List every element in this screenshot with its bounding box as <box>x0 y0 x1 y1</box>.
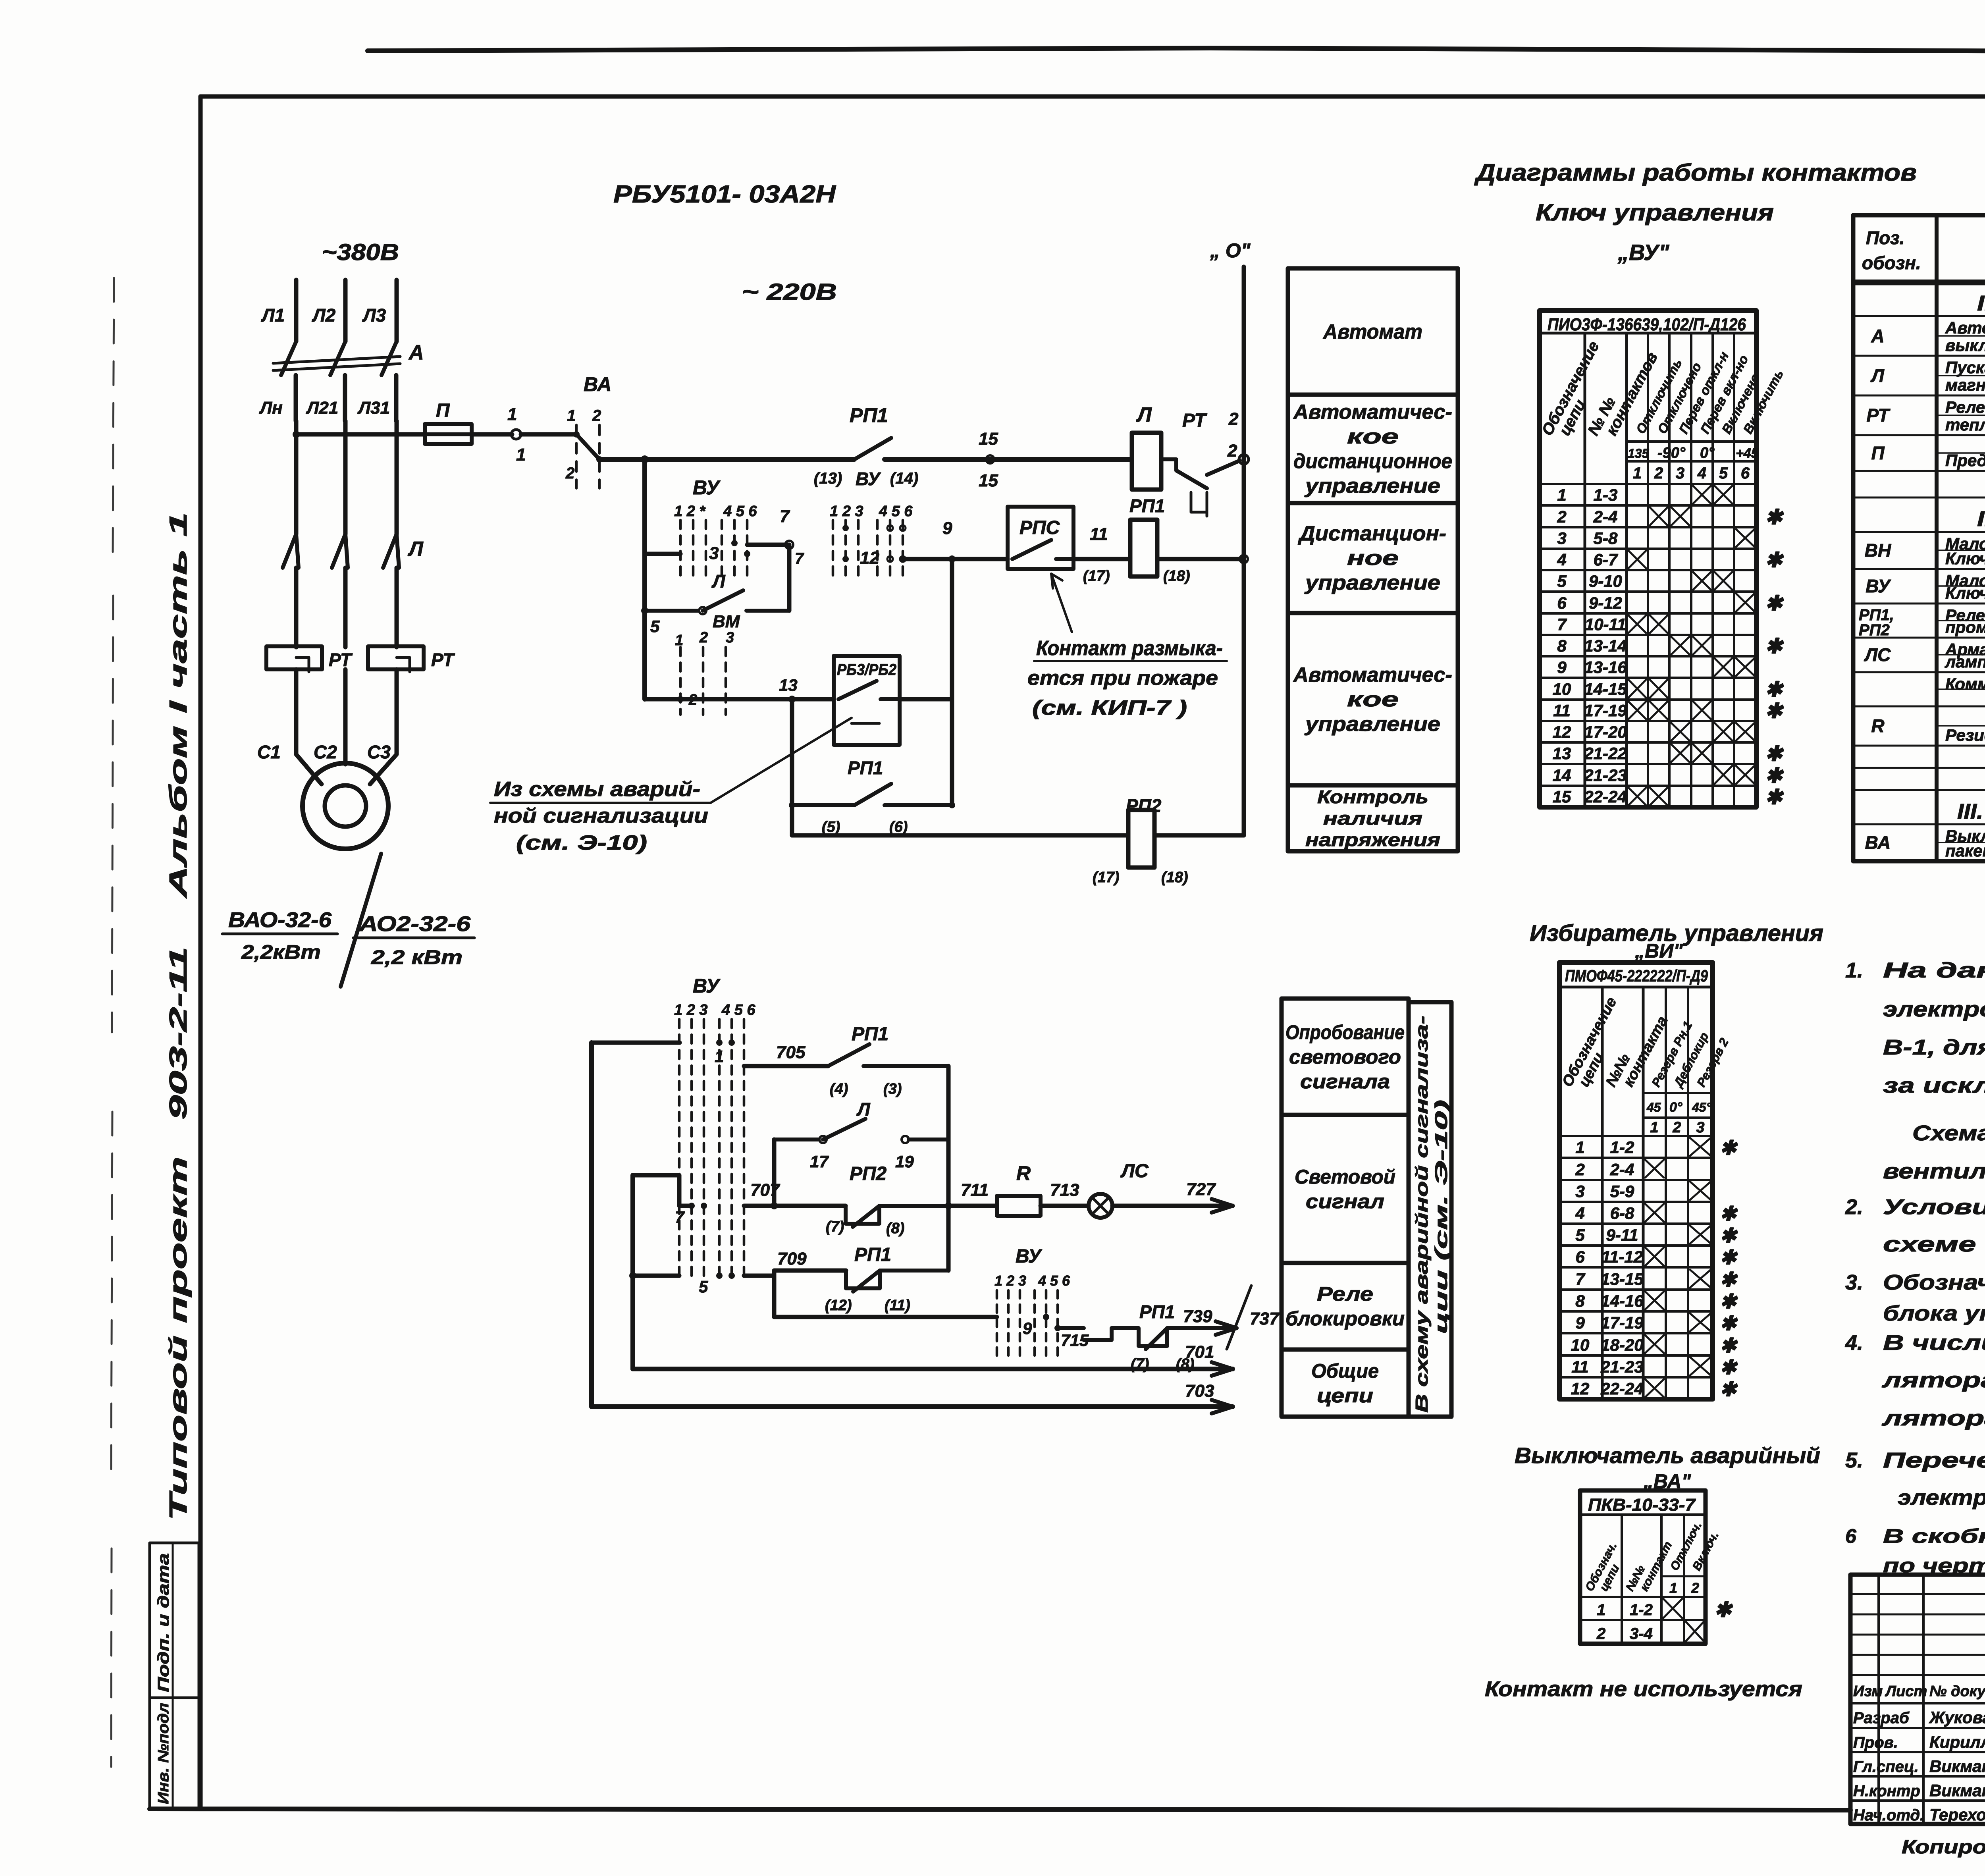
svg-text:11-12: 11-12 <box>1601 1247 1643 1266</box>
svg-text:ное: ное <box>1347 547 1399 570</box>
svg-text:✱: ✱ <box>1720 1290 1738 1313</box>
sheet top scan edge line <box>368 48 1985 52</box>
svg-text:✱: ✱ <box>1720 1224 1738 1247</box>
ВИ table row 11 (21-23) <box>1559 1355 1738 1379</box>
svg-text:вентиляторов П-1.: вентиляторов П-1. <box>1883 1159 1985 1183</box>
svg-text:П: П <box>436 400 450 421</box>
svg-text:10: 10 <box>1571 1336 1590 1354</box>
svg-text:22-24: 22-24 <box>1584 787 1627 806</box>
svg-text:18-20: 18-20 <box>1601 1336 1643 1354</box>
ВИ table row 7 (13-15) <box>1559 1267 1738 1291</box>
svg-text:управление: управление <box>1304 571 1440 594</box>
svg-text:17-20: 17-20 <box>1584 723 1627 741</box>
svg-text:727: 727 <box>1186 1180 1216 1199</box>
svg-text:Ключ: Ключ <box>1945 549 1985 568</box>
svg-text:701: 701 <box>1185 1342 1214 1362</box>
ВУ table row 4 (6-7) <box>1540 549 1784 572</box>
svg-text:5: 5 <box>1719 465 1728 482</box>
svg-text:ВУ: ВУ <box>1866 576 1891 596</box>
svg-text:Световой: Световой <box>1295 1166 1395 1188</box>
svg-text:✱: ✱ <box>1714 1598 1733 1621</box>
thermal relay РТ heater 2 <box>368 646 455 672</box>
wire ВМ to РБ box <box>680 697 834 702</box>
svg-text:9: 9 <box>1023 1319 1032 1338</box>
wire to fuse <box>296 432 425 437</box>
notes text block <box>1845 958 1985 1577</box>
svg-text:2: 2 <box>1596 1625 1605 1643</box>
parts row ВУ ключ <box>1853 569 1985 602</box>
svg-text:Л2: Л2 <box>312 305 336 326</box>
function box: Контроль напряжения <box>1288 785 1458 851</box>
svg-text:(11): (11) <box>885 1297 910 1314</box>
svg-text:Разраб: Разраб <box>1853 1709 1910 1727</box>
contact РП1 (12)(11) NC <box>825 1244 948 1314</box>
svg-text:ВУ: ВУ <box>693 975 721 997</box>
node L1 phase line <box>261 280 296 341</box>
svg-text:9-12: 9-12 <box>1589 594 1622 612</box>
svg-text:Л31: Л31 <box>357 398 390 418</box>
ВА table row 1 (1-2) <box>1580 1598 1733 1621</box>
svg-text:45°: 45° <box>1692 1100 1711 1114</box>
svg-text:5: 5 <box>699 1277 708 1296</box>
svg-text:9: 9 <box>1557 658 1567 677</box>
svg-text:На данном листе дана схема упр: На данном листе дана схема управления <box>1883 958 1985 982</box>
svg-text:13-14: 13-14 <box>1584 636 1627 655</box>
svg-text:1 2 3: 1 2 3 <box>994 1273 1026 1289</box>
ВУ table row 10 (14-15) <box>1540 678 1784 701</box>
ВИ table row 10 (18-20) <box>1559 1333 1738 1357</box>
svg-text:✱: ✱ <box>1765 786 1784 809</box>
svg-text:РТ: РТ <box>1866 405 1891 426</box>
svg-text:В скобках указаны номера конта: В скобках указаны номера контактов реле <box>1883 1525 1985 1547</box>
svg-text:17-19: 17-19 <box>1601 1313 1644 1332</box>
svg-text:✱: ✱ <box>1720 1246 1738 1269</box>
svg-text:10: 10 <box>1553 680 1571 698</box>
svg-text:РТ: РТ <box>431 650 455 670</box>
sidebar stamp box Инв. № подл. <box>150 1698 199 1809</box>
svg-text:✱: ✱ <box>1765 742 1784 765</box>
circuit breaker A (3-pole switch) <box>273 341 424 421</box>
wire РП2 coil to bus end <box>1154 833 1244 838</box>
svg-text:✱: ✱ <box>1765 678 1784 701</box>
svg-text:6: 6 <box>1575 1247 1585 1266</box>
svg-text:1-2: 1-2 <box>1630 1601 1653 1619</box>
limit switch ВМ contacts <box>675 612 740 715</box>
svg-text:739: 739 <box>1183 1307 1212 1326</box>
svg-text:П: П <box>1871 443 1885 463</box>
svg-text:6: 6 <box>1557 594 1567 612</box>
svg-text:пакетно-кулачковый: пакетно-кулачковый <box>1945 841 1985 860</box>
jog bus to group at 5 <box>629 1272 679 1279</box>
svg-text:711: 711 <box>961 1180 989 1200</box>
svg-text:7: 7 <box>780 507 790 526</box>
svg-text:705: 705 <box>776 1043 806 1062</box>
svg-text:✱: ✱ <box>1765 592 1784 615</box>
svg-text:707: 707 <box>750 1180 781 1200</box>
wires from heaters to motor <box>296 669 397 784</box>
vertical from node 13 down <box>790 699 794 835</box>
label РБУ5101-03А2Н <box>613 181 836 208</box>
resistor R <box>997 1162 1041 1216</box>
svg-text:Реле: Реле <box>1945 398 1985 416</box>
svg-text:13: 13 <box>779 676 798 694</box>
side strip: В схему аварийной сигнализации <box>1409 1002 1451 1417</box>
ВИ table row 3 (5-9) <box>1559 1180 1713 1201</box>
svg-text:Общие: Общие <box>1311 1360 1379 1382</box>
key ВУ blocking group <box>994 1246 1089 1362</box>
svg-text:✱: ✱ <box>1720 1312 1738 1334</box>
svg-text:2,2 кВт: 2,2 кВт <box>371 946 463 968</box>
svg-text:тепловое: тепловое <box>1945 415 1985 434</box>
wire РПС to РП1 coil <box>1073 524 1130 584</box>
svg-text:1 2 3: 1 2 3 <box>830 503 863 520</box>
svg-text:ВУ: ВУ <box>1016 1246 1043 1267</box>
svg-text:А: А <box>1871 326 1884 346</box>
svg-text:11: 11 <box>1553 701 1571 720</box>
blocking relay box РБ3/РБ2 <box>834 656 900 745</box>
svg-text:8: 8 <box>1557 636 1567 655</box>
wire fuse to node 1 <box>472 432 512 437</box>
svg-text:„ВИ": „ВИ" <box>1634 940 1683 962</box>
title: Диаграммы работы контактов <box>1474 159 1917 265</box>
svg-text:5: 5 <box>650 617 660 636</box>
svg-text:3: 3 <box>1676 465 1684 482</box>
svg-text:7: 7 <box>1557 615 1567 634</box>
ВУ table row 8 (13-14) <box>1540 635 1784 658</box>
second bus (net 701) <box>630 1175 635 1369</box>
svg-text:9: 9 <box>1575 1313 1585 1332</box>
svg-text:ПКВ-10-33-7: ПКВ-10-33-7 <box>1588 1495 1696 1515</box>
svg-text:(17): (17) <box>1093 869 1120 886</box>
svg-text:Реле: Реле <box>1317 1283 1373 1305</box>
wire РП1 to node 15 <box>885 457 1132 462</box>
svg-text:(7): (7) <box>826 1219 844 1235</box>
svg-text:13: 13 <box>1553 744 1571 763</box>
relay coil РП1 <box>1129 496 1190 584</box>
thermal contact РТ <box>1161 409 1240 516</box>
svg-text:12: 12 <box>860 548 879 568</box>
svg-text:✱: ✱ <box>1720 1137 1738 1159</box>
svg-text:✱: ✱ <box>1720 1203 1738 1225</box>
label ~380V <box>322 239 399 265</box>
svg-text:(6): (6) <box>889 819 908 835</box>
svg-text:I. Аппараты, на ЩСУ: I. Аппараты, на ЩСУ <box>1977 291 1985 315</box>
svg-text:РП2: РП2 <box>850 1163 887 1184</box>
svg-text:11: 11 <box>1571 1357 1589 1376</box>
table: emergency switch ВА <box>1580 1490 1721 1644</box>
parts section I <box>1853 284 1985 316</box>
svg-text:1-2: 1-2 <box>1610 1138 1634 1157</box>
junction on phase 1 <box>293 431 300 438</box>
svg-text:1: 1 <box>567 407 576 424</box>
svg-text:ЛС: ЛС <box>1864 644 1891 665</box>
svg-text:ется при пожаре: ется при пожаре <box>1027 667 1218 690</box>
svg-text:4: 4 <box>1557 550 1566 569</box>
function box: Авт. дист. управление <box>1288 395 1458 503</box>
parts empty row <box>1853 471 1985 497</box>
svg-text:9-11: 9-11 <box>1606 1226 1638 1244</box>
callout: Контакт размыкается при пожаре <box>1027 574 1227 719</box>
svg-text:2: 2 <box>1654 465 1663 482</box>
wire to second ВУ group <box>774 1276 997 1317</box>
jog bus to group at 7 <box>633 1175 692 1206</box>
sidebar stamp box Подп. и дата <box>150 1543 199 1698</box>
svg-text:✱: ✱ <box>1765 549 1784 572</box>
svg-text:„ О": „ О" <box>1210 239 1251 262</box>
svg-text:6-8: 6-8 <box>1610 1204 1634 1222</box>
wire top feed to ВУ group <box>592 1041 680 1045</box>
svg-text:В-1, для второго вентилятора с: В-1, для второго вентилятора схема анало… <box>1883 1035 1985 1059</box>
svg-text:3: 3 <box>1696 1119 1704 1136</box>
svg-text:2: 2 <box>1228 409 1239 429</box>
terminal labels С1 С2 С3 <box>257 742 391 762</box>
svg-text:магнитный: магнитный <box>1945 376 1985 394</box>
ВУ table row 13 (21-22) <box>1540 742 1784 765</box>
ВИ table row 12 (22-24) <box>1559 1377 1738 1400</box>
svg-text:светового: светового <box>1289 1046 1401 1068</box>
ВУ table row 1 (1-3) <box>1540 484 1756 504</box>
svg-text:2,2кВт: 2,2кВт <box>241 941 321 963</box>
ВУ table row 11 (17-19) <box>1540 700 1784 723</box>
svg-text:4.: 4. <box>1845 1331 1863 1355</box>
svg-text:блокировки: блокировки <box>1285 1307 1405 1330</box>
svg-text:713: 713 <box>1050 1180 1079 1200</box>
svg-text:(18): (18) <box>1161 869 1188 886</box>
svg-text:1: 1 <box>516 445 526 465</box>
svg-text:✱: ✱ <box>1765 700 1784 723</box>
svg-text:Гл.спец.: Гл.спец. <box>1853 1758 1919 1776</box>
svg-text:Терехов: Терехов <box>1929 1805 1985 1824</box>
svg-text:135: 135 <box>1628 446 1650 461</box>
svg-text:13-15: 13-15 <box>1601 1270 1644 1288</box>
svg-text:РП2: РП2 <box>1859 621 1890 639</box>
svg-text:✱: ✱ <box>1720 1334 1738 1357</box>
net „0" bus <box>1210 239 1251 835</box>
parts row А выключатель <box>1853 316 1985 355</box>
svg-text:промежуточное: промежуточное <box>1945 618 1985 636</box>
note: Контакт не используется <box>1485 1677 1802 1701</box>
thermal relay РТ heater 1 <box>266 646 353 672</box>
svg-text:(13): (13) <box>814 470 842 487</box>
svg-text:ПИО3Ф-136639,102/П-Д126: ПИО3Ф-136639,102/П-Д126 <box>1548 315 1746 334</box>
node labels Л11 Л21 Л31 <box>259 398 390 418</box>
svg-text:(3): (3) <box>883 1081 902 1097</box>
svg-text:6: 6 <box>1741 465 1750 482</box>
svg-text:~380В: ~380В <box>322 239 399 265</box>
relay coil РП2 <box>1093 795 1188 886</box>
wire node9 to РПС <box>952 557 1008 561</box>
svg-text:РП1: РП1 <box>852 1024 888 1045</box>
svg-text:14-16: 14-16 <box>1601 1292 1644 1310</box>
wire 713 to lamp <box>1041 1180 1089 1206</box>
svg-text:Обозначение „О" соответствует: Обозначение „О" соответствует заводской … <box>1883 1271 1985 1294</box>
svg-text:2: 2 <box>1557 507 1566 526</box>
svg-text:~ 220В: ~ 220В <box>742 279 837 305</box>
svg-text:ВН: ВН <box>1865 540 1891 561</box>
svg-text:21-23: 21-23 <box>1600 1357 1643 1376</box>
svg-text:✱: ✱ <box>1720 1269 1738 1291</box>
svg-text:Нач.отд.: Нач.отд. <box>1853 1807 1924 1824</box>
svg-text:✱: ✱ <box>1720 1356 1738 1379</box>
motor data fraction ВАО-32-6/2,2кВт <box>222 908 337 963</box>
contact РП1 (5)(6) <box>789 758 955 835</box>
svg-text:22-24: 22-24 <box>1600 1379 1643 1398</box>
function box: Автоматическое управление <box>1288 613 1458 785</box>
svg-text:9: 9 <box>942 519 952 538</box>
wire bottom row to РП2 coil <box>792 833 1128 838</box>
svg-text:5: 5 <box>1557 572 1567 590</box>
svg-text:3: 3 <box>726 629 734 646</box>
svg-text:2-4: 2-4 <box>1593 507 1618 526</box>
function box: Опробование светового сигнала <box>1282 999 1409 1115</box>
contact РП1 (4)(3) <box>828 1024 948 1097</box>
svg-text:1: 1 <box>1669 1580 1677 1596</box>
contact РП1 (13)(14) <box>814 404 918 489</box>
svg-text:1: 1 <box>675 632 683 649</box>
svg-text:сигнал: сигнал <box>1306 1190 1384 1213</box>
wire node1 to ВА <box>521 432 576 437</box>
svg-text:3: 3 <box>1557 529 1566 548</box>
svg-text:2-4: 2-4 <box>1610 1160 1634 1179</box>
wire: phase 1 drop to contactor <box>294 421 299 534</box>
table: key ВУ contact diagram <box>1538 310 1786 807</box>
svg-text:✱: ✱ <box>1765 635 1784 658</box>
svg-text:С3: С3 <box>367 742 391 762</box>
ВУ table row 5 (9-10) <box>1540 570 1756 590</box>
svg-text:11: 11 <box>1090 524 1108 544</box>
junction node at 1624,1157 <box>641 455 649 463</box>
svg-text:Автоматичес-: Автоматичес- <box>1293 401 1452 424</box>
contact РП1 (7)(8) blocking <box>1084 1301 1237 1373</box>
svg-text:Автоматичес-: Автоматичес- <box>1293 663 1452 686</box>
left bus (net 703 feed) <box>589 1043 594 1407</box>
svg-text:ВМ: ВМ <box>713 612 740 631</box>
svg-text:R: R <box>1016 1162 1031 1184</box>
svg-text:РП1: РП1 <box>1129 496 1165 516</box>
svg-text:1: 1 <box>1633 465 1642 482</box>
svg-text:РП1: РП1 <box>854 1244 891 1265</box>
svg-text:737: 737 <box>1250 1309 1280 1328</box>
label ~220V <box>742 279 837 305</box>
node 1 <box>507 405 526 465</box>
svg-text:(14): (14) <box>890 470 918 487</box>
svg-text:Жукова: Жукова <box>1929 1708 1985 1727</box>
wire РБ box to vertical <box>900 697 952 702</box>
svg-text:Поз.: Поз. <box>1866 228 1904 248</box>
svg-text:6: 6 <box>1845 1525 1857 1547</box>
svg-text:Выключатель аварийный: Выключатель аварийный <box>1515 1443 1820 1468</box>
signal lamp ЛС <box>1089 1161 1149 1218</box>
parts row ЛС арматура <box>1853 638 1985 671</box>
sidebar rotated text: Типовой проект 903-2-11 Альбом I часть 1 <box>165 512 192 1521</box>
svg-text:лятора В-1, в знаменателе - пр: лятора В-1, в знаменателе - приточного в… <box>1881 1368 1985 1392</box>
svg-text:лятора П-1.: лятора П-1. <box>1881 1406 1985 1430</box>
svg-text:4 5 6: 4 5 6 <box>1038 1273 1070 1289</box>
svg-text:✱: ✱ <box>1765 764 1784 787</box>
svg-text:блока управления: блока управления <box>1883 1301 1985 1325</box>
svg-text:Кириллова: Кириллова <box>1929 1733 1985 1751</box>
parts section III <box>1955 800 1985 824</box>
svg-text:С2: С2 <box>314 742 337 762</box>
svg-text:Изм: Изм <box>1853 1683 1883 1700</box>
svg-text:17-19: 17-19 <box>1584 701 1627 720</box>
wire 703 <box>592 1381 1233 1413</box>
ВИ table row 4 (6-8) <box>1559 1202 1738 1225</box>
svg-text:РТ: РТ <box>1182 410 1207 431</box>
svg-text:15: 15 <box>1553 787 1571 806</box>
svg-text:17: 17 <box>810 1152 829 1171</box>
contactor Л main contacts <box>283 534 424 647</box>
svg-text:Диаграммы работы контактов: Диаграммы работы контактов <box>1474 159 1917 186</box>
svg-text:21-23: 21-23 <box>1584 766 1627 785</box>
svg-text:Л: Л <box>856 1099 871 1120</box>
svg-text:15: 15 <box>979 471 998 490</box>
svg-text:19: 19 <box>895 1152 914 1171</box>
svg-text:за исключением номера цепи клю: за исключением номера цепи ключа„ВИ"(см.… <box>1883 1074 1985 1097</box>
svg-text:2: 2 <box>1691 1580 1699 1596</box>
svg-text:Опробование: Опробование <box>1285 1021 1405 1043</box>
svg-text:Контакт размыка-: Контакт размыка- <box>1036 637 1223 660</box>
svg-text:Лист: Лист <box>1885 1683 1927 1700</box>
svg-text:Перечень аппаратов приведен дл: Перечень аппаратов приведен для одного <box>1883 1448 1985 1472</box>
svg-text:дистанционное: дистанционное <box>1293 450 1452 473</box>
key ВУ contact group 1 <box>645 476 789 578</box>
svg-text:3: 3 <box>709 544 719 563</box>
wire: phase 3 drop <box>395 421 399 534</box>
wire 711 to resistor <box>948 1180 997 1206</box>
svg-text:5.: 5. <box>1845 1448 1863 1472</box>
node 7 <box>780 507 804 567</box>
svg-text:ВАО-32-6: ВАО-32-6 <box>228 908 332 932</box>
ВУ table row 9 (13-16) <box>1540 656 1756 677</box>
svg-text:12: 12 <box>1553 723 1571 741</box>
svg-text:Викманис: Викманис <box>1929 1757 1985 1776</box>
svg-text:Л: Л <box>1136 403 1152 426</box>
svg-text:✱: ✱ <box>1720 1378 1738 1400</box>
svg-text:10-11: 10-11 <box>1585 615 1626 634</box>
svg-text:1-3: 1-3 <box>1594 486 1618 504</box>
title: Избиратель управления ВИ <box>1530 920 1823 962</box>
motor data fraction АО2-32-6/2,2кВт <box>353 912 474 968</box>
aux contact Л <box>645 545 789 614</box>
svg-text:14-15: 14-15 <box>1584 680 1627 698</box>
svg-text:Пров.: Пров. <box>1853 1734 1898 1751</box>
svg-text:(см. Э-10): (см. Э-10) <box>516 831 647 854</box>
left scan edge broken line <box>111 278 114 1767</box>
pos labels РП1 РП2 <box>1859 606 1894 639</box>
svg-text:наличия: наличия <box>1323 808 1422 829</box>
svg-text:кое: кое <box>1347 425 1399 448</box>
svg-text:8: 8 <box>1575 1292 1585 1310</box>
ВИ table row 8 (14-16) <box>1559 1290 1738 1313</box>
svg-text:✱: ✱ <box>1765 506 1784 529</box>
wire main rail to РП1 contact <box>645 457 854 462</box>
svg-text:ВА: ВА <box>1865 832 1891 853</box>
title: Выключатель аварийный ВА <box>1515 1443 1820 1492</box>
wire 709 row <box>744 1249 846 1276</box>
motor M (double circle) <box>303 763 388 849</box>
svg-text:РП1: РП1 <box>848 758 883 778</box>
key ВУ contact group 2 <box>830 503 952 578</box>
svg-text:Викманис: Викманис <box>1929 1781 1985 1800</box>
svg-text:2.: 2. <box>1845 1195 1863 1219</box>
parts row РП1 РП2 реле <box>1853 603 1985 636</box>
svg-text:кое: кое <box>1347 688 1399 711</box>
function box: Общие цепи <box>1282 1350 1409 1417</box>
node 13 <box>779 676 798 703</box>
parts list table grid <box>1853 215 1985 861</box>
parts row ВН ключ <box>1853 532 1985 568</box>
